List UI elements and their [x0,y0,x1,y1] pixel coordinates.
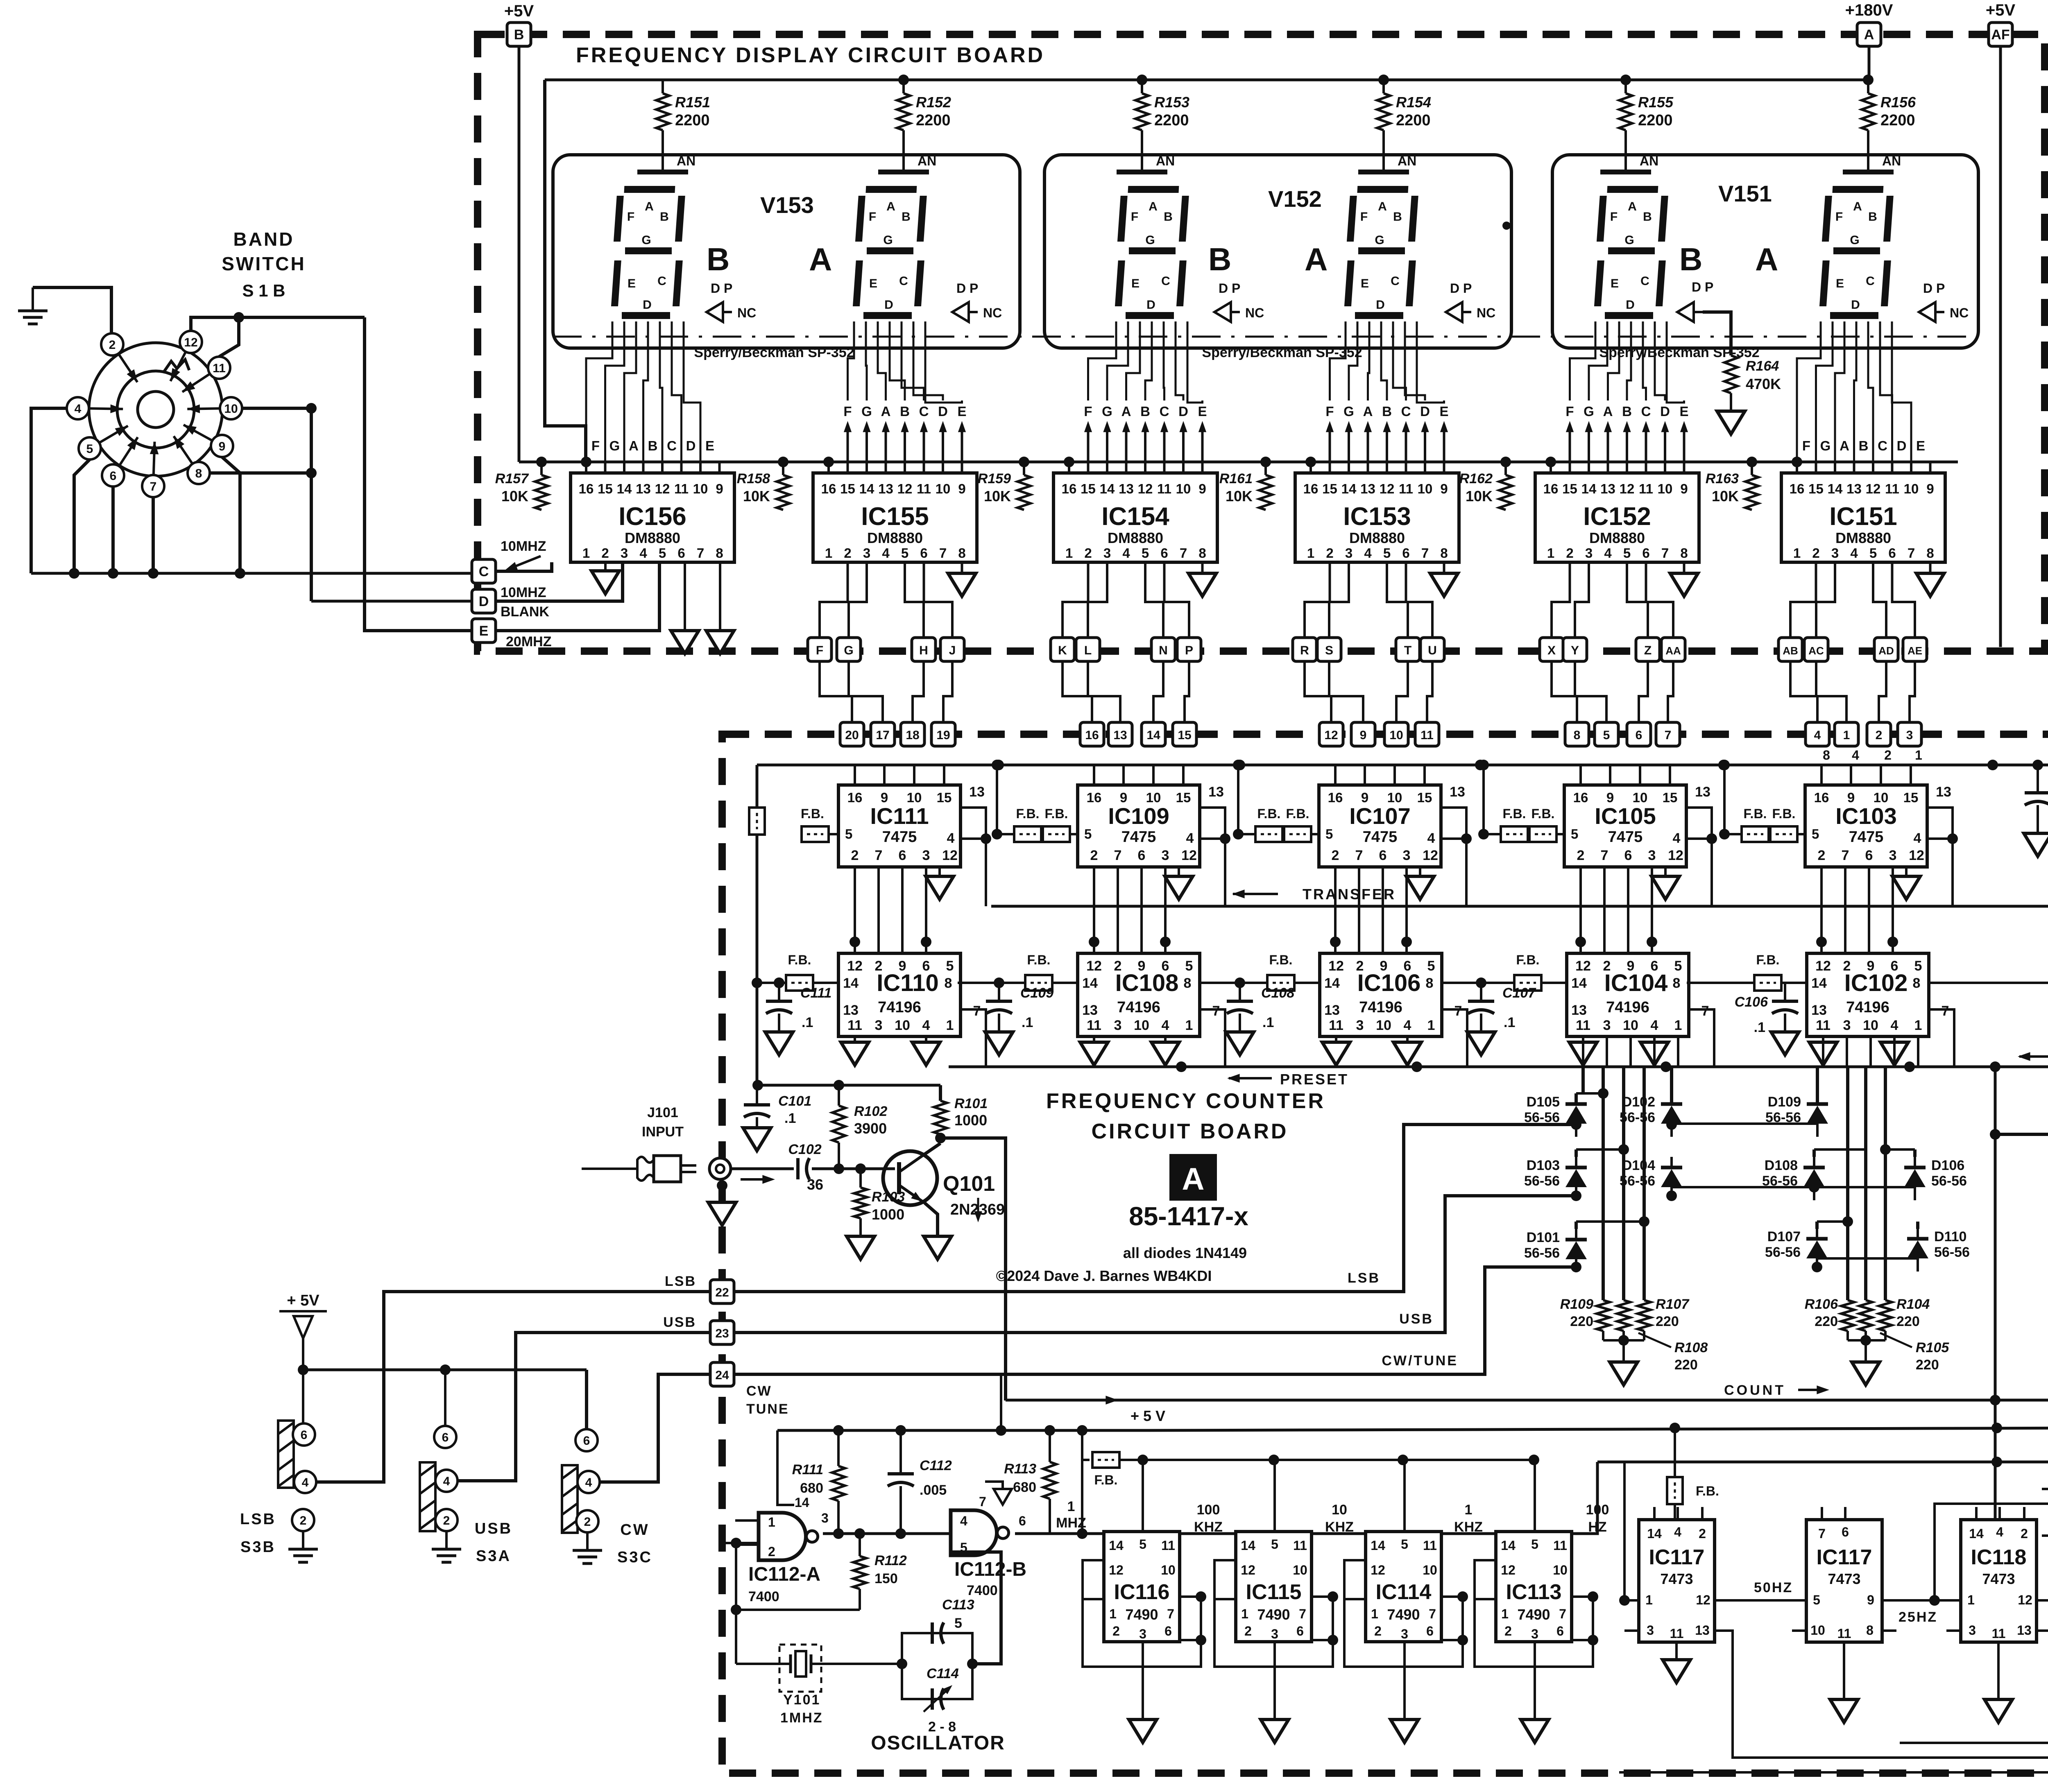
diode D110 56-56 [1907,1228,1970,1272]
svg-text:22: 22 [715,1286,729,1299]
svg-text:10: 10 [693,481,708,496]
svg-text:13: 13 [1113,729,1127,742]
svg-text:B: B [1859,438,1869,453]
svg-text:2: 2 [1090,848,1098,863]
title CIRCUIT BOARD [1092,1120,1289,1143]
svg-text:2200: 2200 [675,112,710,129]
svg-text:R151: R151 [675,94,710,111]
ferrite bead at IC104 [1447,953,1550,991]
svg-text:150: 150 [874,1571,898,1586]
segment letters above IC156 [591,438,714,453]
svg-text:2: 2 [844,545,851,561]
wire S3B pin 4 to pad 22 [316,1292,710,1482]
oscillator output wire IC112-A to IC112-B [823,1520,951,1539]
svg-text:8: 8 [1426,975,1434,991]
svg-text:10: 10 [1863,1018,1878,1033]
pad D [472,589,496,613]
pad B [507,23,531,46]
svg-text:DM8880: DM8880 [1349,529,1405,546]
svg-text:5: 5 [1383,545,1391,561]
junction +5V at IC153 pin 16 [1305,457,1316,467]
pad Y [1563,638,1587,661]
pad U [1420,638,1444,661]
svg-text:KHZ: KHZ [1325,1519,1354,1535]
wire anode bus left drop [545,80,586,462]
matrix row joins [1571,1119,1918,1272]
svg-text:12: 12 [1371,1563,1385,1577]
ground below C101 [743,1128,771,1151]
crystal Y101 1MHZ [736,1645,902,1726]
svg-text:1: 1 [1501,1606,1509,1621]
svg-text:.1: .1 [1754,1020,1765,1035]
svg-text:1: 1 [1427,1018,1435,1033]
pad H [912,638,936,661]
carry wire IC116 [1180,1532,1236,1535]
wire pad link 3185-3250 [1305,661,1331,722]
svg-text:F.B.: F.B. [1756,953,1780,967]
svg-text:5: 5 [1914,958,1922,974]
ferrite beads pair at IC109 [992,760,1078,842]
svg-text:KHZ: KHZ [1194,1519,1223,1535]
ferrite bead above IC117 [1667,1428,1719,1520]
IC IC156 DM8880 [571,462,734,562]
svg-text:2: 2 [109,338,116,352]
label V151 [1718,181,1772,206]
svg-text:1: 1 [1241,1606,1248,1621]
svg-text:1MHZ: 1MHZ [780,1710,823,1726]
svg-text:20: 20 [845,729,859,742]
svg-text:10K: 10K [984,488,1011,505]
svg-text:74196: 74196 [878,999,921,1016]
svg-text:B: B [1208,241,1231,277]
pad 16 counter board [1080,722,1104,746]
svg-text:7: 7 [1167,1606,1174,1621]
wire pad link 4085-4072 [1668,661,1673,722]
svg-text:12: 12 [1423,848,1438,863]
mode switch +5V rail [298,1364,587,1429]
svg-text:4: 4 [882,545,890,561]
wire pad link 3497-3484 [1427,661,1432,722]
wire pad link 2840-2816 [1153,661,1163,722]
svg-text:C: C [479,564,489,579]
svg-text:3: 3 [1103,545,1111,561]
svg-text:85-1417-x: 85-1417-x [1129,1201,1248,1231]
svg-text:G: G [1102,404,1112,419]
svg-text:DM8880: DM8880 [1589,529,1645,546]
svg-text:C114: C114 [927,1666,959,1681]
frequency counter circuit board border [722,734,2048,1773]
svg-text:2: 2 [1504,1624,1512,1638]
svg-text:3: 3 [1271,1627,1278,1641]
segment letters above IC154 [1084,404,1207,419]
svg-text:10: 10 [1658,481,1673,496]
svg-text:4: 4 [302,1476,309,1489]
svg-text:D110: D110 [1934,1229,1966,1244]
svg-text:7490: 7490 [1125,1606,1158,1623]
svg-text:C112: C112 [920,1458,952,1473]
svg-text:Y101: Y101 [783,1692,820,1708]
svg-text:V151: V151 [1718,181,1772,206]
svg-text:KHZ: KHZ [1454,1519,1483,1535]
svg-text:4: 4 [443,1475,450,1488]
svg-text:F: F [591,438,600,453]
svg-text:A: A [1853,200,1862,213]
svg-text:12: 12 [1324,729,1338,742]
svg-text:13: 13 [1208,784,1224,800]
svg-text:1: 1 [1307,545,1314,561]
svg-text:9: 9 [219,440,226,453]
svg-text:6: 6 [1138,848,1146,863]
label V152 [1268,186,1322,212]
svg-text:16: 16 [1087,790,1102,805]
resistor R103 1000 [854,1169,905,1236]
svg-text:15: 15 [1176,790,1191,805]
svg-text:B: B [1622,404,1632,419]
svg-text:Sperry/Beckman SP-352: Sperry/Beckman SP-352 [694,345,854,360]
IC IC113 7490 [1496,1532,1572,1642]
anode bar AN digit at x2730 [1117,154,1175,172]
svg-text:4: 4 [960,1514,967,1528]
svg-text:6: 6 [920,545,927,561]
ground below IC113 [1521,1667,1549,1742]
svg-text:15: 15 [598,481,613,496]
svg-text:7473: 7473 [1828,1570,1860,1587]
svg-text:2: 2 [1818,848,1826,863]
wire pad link 4605-4587 [1879,661,1886,722]
COUNT wire [1006,1382,2048,1405]
svg-text:F.B.: F.B. [1045,806,1068,821]
anode bus wire [545,79,1869,81]
svg-text:16: 16 [1543,481,1559,496]
svg-text:11: 11 [1837,1626,1851,1641]
svg-text:7: 7 [1818,1526,1826,1541]
svg-text:D: D [938,404,948,419]
svg-text:F: F [843,404,852,419]
svg-text:24: 24 [715,1369,729,1382]
svg-text:1: 1 [1067,1499,1075,1514]
diode D107 56-56 [1765,1228,1828,1272]
pad 5 counter board [1595,722,1618,746]
svg-text:50HZ: 50HZ [1754,1580,1793,1595]
svg-text:B: B [900,404,910,419]
svg-text:11: 11 [1420,729,1434,742]
svg-text:7490: 7490 [1517,1606,1550,1623]
svg-text:+5V: +5V [504,2,534,20]
svg-text:R161: R161 [1219,471,1253,486]
svg-text:G: G [883,233,893,247]
svg-text:IC103: IC103 [1835,803,1896,829]
matrix feeders under IC102 [1814,1036,1918,1300]
pad A [1857,23,1881,46]
svg-text:A: A [1363,404,1373,419]
svg-text:15: 15 [1808,481,1824,496]
wire count into IC101-A [0,0,0,0]
svg-text:DM8880: DM8880 [1835,529,1891,546]
svg-text:6: 6 [1842,1525,1849,1539]
svg-text:7: 7 [1114,848,1122,863]
ground below C108 [1226,1032,1254,1055]
svg-text:5: 5 [86,442,93,456]
pad AD [1874,638,1898,661]
svg-text:IC104: IC104 [1604,970,1668,996]
svg-text:F: F [1131,210,1138,224]
svg-text:U: U [1428,644,1437,657]
pad 15 counter board [1173,722,1196,746]
wire +5V rail left into IC112-A [777,1430,794,1505]
label B of V153 [707,241,729,277]
svg-text:15: 15 [1562,481,1577,496]
svg-text:11: 11 [1329,1018,1343,1033]
carry wire IC113 [1572,1462,1597,1534]
svg-text:16: 16 [579,481,594,496]
svg-text:19: 19 [936,729,950,742]
wires IC153 to pads [1305,562,1432,638]
svg-text:R163: R163 [1706,471,1739,486]
svg-text:C: C [899,274,908,288]
svg-text:3: 3 [1843,1018,1851,1033]
ground below IC153 pin 8 [1430,562,1458,596]
resistor R106 220 [1841,1300,1854,1331]
svg-text:5: 5 [1674,958,1682,974]
svg-text:D109: D109 [1768,1094,1801,1110]
svg-text:7475: 7475 [1363,828,1398,846]
label USB S3A [475,1520,512,1565]
svg-text:IC108: IC108 [1115,970,1179,996]
svg-text:16: 16 [1790,481,1805,496]
svg-text:.1: .1 [1504,1015,1515,1030]
svg-text:3900: 3900 [854,1120,887,1137]
svg-text:CIRCUIT BOARD: CIRCUIT BOARD [1092,1120,1289,1143]
svg-text:15: 15 [1663,790,1678,805]
svg-text:8: 8 [716,545,723,561]
svg-text:12: 12 [897,481,913,496]
DP NC marker at x3530 [1446,281,1495,322]
svg-text:3: 3 [922,848,930,863]
svg-text:10MHZ: 10MHZ [501,585,546,600]
pad 6 counter board [1627,722,1651,746]
svg-text:13: 13 [1846,481,1862,496]
wires IC151 to pads [1790,562,1915,638]
svg-text:F.B.: F.B. [1531,806,1555,821]
svg-text:IC110: IC110 [877,970,939,996]
svg-text:NC: NC [1245,305,1264,320]
ferrite bead at IC108 [958,953,1061,991]
side loops IC115 [1214,1560,1338,1667]
svg-text:100: 100 [1197,1502,1220,1518]
wire pad A to anode bus [1868,46,1871,80]
svg-text:11: 11 [1423,1538,1437,1553]
resistor R151 2200 [656,80,710,165]
pad R [1293,638,1316,661]
wire ground to terminal 2 [33,287,111,333]
svg-text:IC154: IC154 [1101,502,1169,531]
input signal arrow [741,1175,775,1184]
svg-text:S: S [1325,644,1333,657]
wire pad link 4434-4508 [1816,661,1846,722]
grounds below IC156 pins 6 7 [671,562,734,654]
svg-text:14: 14 [843,975,859,991]
wire bundle IC156 digit B bundle [586,321,700,473]
svg-text:G: G [1375,233,1384,247]
pad 23 [710,1321,734,1344]
diode D106 56-56 [1904,1157,1967,1200]
svg-text:4: 4 [1427,830,1435,846]
svg-text:9: 9 [958,481,965,496]
svg-text:14: 14 [1969,1526,1984,1541]
svg-text:220: 220 [1896,1314,1920,1329]
grounds below IC102 [1809,1036,1908,1065]
wire S3C pin 4 to pad 24 [599,1374,710,1482]
wire terminal 12 and 11 to E line [191,312,365,357]
svg-text:C111: C111 [800,985,831,1001]
svg-text:3: 3 [1162,848,1169,863]
svg-text:4: 4 [1673,830,1681,846]
svg-text:2: 2 [1112,1624,1120,1638]
svg-text:2200: 2200 [1154,112,1189,129]
diode D108 56-56 [1762,1157,1825,1200]
svg-text:FREQUENCY COUNTER: FREQUENCY COUNTER [1046,1089,1325,1113]
ferrite beads pair at IC105 [1478,760,1564,842]
svg-text:5: 5 [1139,1537,1146,1552]
svg-text:11: 11 [1992,1626,2006,1641]
junction +5V at IC151 pin 16 [1792,457,1802,467]
svg-text:F.B.: F.B. [1016,806,1040,821]
svg-text:74196: 74196 [1846,999,1889,1016]
svg-text:14: 14 [1241,1538,1255,1553]
svg-text:AN: AN [677,154,696,168]
svg-text:7473: 7473 [1982,1570,2015,1587]
svg-text:6: 6 [583,1434,590,1448]
svg-text:+5V: +5V [1986,1,2016,19]
svg-text:2: 2 [1332,848,1339,863]
svg-text:D: D [1851,298,1860,312]
svg-text:USB: USB [475,1520,512,1537]
wire pad link 3437-3409 [1396,661,1408,722]
svg-text:all diodes 1N4149: all diodes 1N4149 [1123,1244,1247,1261]
svg-text:AN: AN [918,154,936,168]
left feed wire inside counter board [752,765,762,1085]
svg-text:5: 5 [1401,1537,1408,1552]
svg-text:IC115: IC115 [1246,1580,1302,1604]
svg-text:.1: .1 [1262,1015,1274,1030]
pad 8 counter board [1565,722,1589,746]
wire pad link 2903-2892 [1185,661,1189,722]
svg-text:7: 7 [939,545,947,561]
ground below IC103 [1892,867,1920,899]
svg-text:220: 220 [1674,1357,1698,1373]
svg-text:4: 4 [639,545,647,561]
svg-text:6: 6 [899,848,906,863]
svg-text:AB: AB [1783,645,1798,657]
svg-text:11: 11 [1576,1018,1590,1033]
svg-text:R164: R164 [1746,358,1779,374]
svg-text:8: 8 [1866,1623,1874,1638]
svg-text:A: A [881,404,891,419]
svg-text:6: 6 [1164,1624,1172,1638]
svg-text:13: 13 [1360,481,1375,496]
switch terminal 11 [180,357,230,396]
svg-text:14: 14 [1828,481,1843,496]
label A of V152 [1305,241,1328,277]
svg-text:470K: 470K [1746,376,1781,392]
NAND gate IC112-B 7400 [951,1494,1026,1598]
switch S3C CW [562,1429,600,1533]
svg-text:B: B [1679,241,1702,277]
label 10MHZ with arrow at pad C [501,539,546,575]
svg-text:5: 5 [1531,1537,1538,1552]
anode bar AN digit at x2090 [878,154,936,172]
svg-text:D: D [1626,298,1635,312]
svg-text:3: 3 [1906,729,1913,742]
+5V rail oscillator [777,1374,1165,1436]
resistor R109 220 [1597,1300,1610,1331]
svg-text:2: 2 [1577,848,1585,863]
svg-text:5: 5 [901,545,908,561]
svg-text:16: 16 [1085,729,1099,742]
svg-text:15: 15 [1903,790,1919,805]
svg-text:12: 12 [655,481,670,496]
right rail lower [1597,1457,2048,1467]
DP marker of V151 digit B [1677,280,1731,355]
wire bundle IC153 digit A bundle [1330,321,1444,403]
svg-text:11: 11 [213,362,226,375]
svg-text:F: F [1610,210,1618,224]
svg-text:12: 12 [1696,1593,1710,1607]
svg-text:2: 2 [1326,545,1333,561]
svg-text:D: D [643,298,652,312]
svg-text:D P: D P [711,281,732,296]
svg-text:D101: D101 [1527,1230,1560,1245]
svg-text:R105: R105 [1916,1340,1949,1355]
svg-text:AN: AN [1156,154,1175,168]
switch terminal 8 [170,434,210,484]
ground below IC152 pin 8 [1670,562,1698,596]
svg-text:15: 15 [1081,481,1096,496]
svg-text:+ 5 V: + 5 V [1130,1407,1165,1424]
capacitor C111 feed [757,977,784,1001]
segment letters above IC153 [1325,404,1448,419]
svg-text:J: J [949,644,956,657]
USB wire [734,1196,1576,1333]
svg-text:OSCILLATOR: OSCILLATOR [871,1732,1005,1754]
side loops IC113 [1475,1560,1598,1667]
J101 input plug [582,1156,696,1182]
label B of V151 [1679,241,1702,277]
pad E [472,619,496,643]
svg-text:R159: R159 [978,471,1011,486]
svg-text:8: 8 [1673,975,1681,991]
svg-text:14: 14 [1581,481,1597,496]
wire pad link 4023-4001 [1639,661,1648,722]
svg-text:8: 8 [1823,748,1830,763]
svg-text:D: D [479,594,489,609]
svg-text:AN: AN [1640,154,1658,168]
ground below IC118 [1985,1642,2012,1722]
svg-text:11: 11 [674,481,689,496]
svg-text:14: 14 [1501,1538,1516,1553]
svg-text:6: 6 [1888,545,1896,561]
svg-text:.1: .1 [784,1111,796,1126]
capacitor C107 .1 [1468,983,1536,1032]
svg-text:8: 8 [958,545,965,561]
svg-text:14: 14 [617,481,632,496]
svg-text:E: E [1131,277,1140,290]
svg-text:A: A [1305,241,1328,277]
svg-text:17: 17 [876,729,889,742]
svg-text:12: 12 [1815,958,1831,974]
svg-text:4: 4 [947,830,955,846]
board letter A block [1169,1154,1217,1201]
